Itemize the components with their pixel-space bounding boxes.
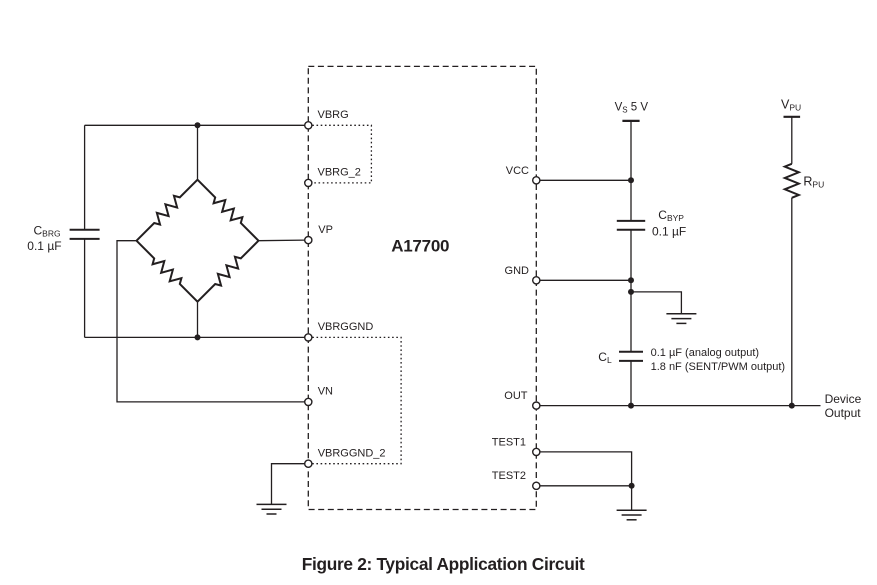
svg-text:VBRGGND: VBRGGND [318,321,374,333]
wire TEST2 [540,485,632,487]
svg-text:VPU: VPU [781,98,801,113]
pin VBRGGND_2 [305,460,312,467]
wire VBRG top rail [85,124,305,126]
wire VCC [540,179,631,181]
svg-text:RPU: RPU [803,175,824,190]
wire VS rail upper [630,121,632,221]
dotted link box VBRGGND to VBRGGND_2 [312,337,401,463]
pin GND [533,277,540,284]
capacitor C2 CBYP [617,221,645,230]
node junction TEST2 ground [629,483,635,489]
wire rail lower [630,361,632,406]
label CL value analog [651,347,759,359]
wire left rail upper [84,125,86,229]
label VP [318,224,333,236]
wire VP from bridge right vertex [259,239,305,242]
pin OUT [533,402,540,409]
svg-text:0.1 µF (analog output): 0.1 µF (analog output) [651,347,759,359]
node junction VCC rail [628,177,634,183]
resistor R1 bridge top-left [137,180,198,241]
label VBRG [318,109,349,121]
wire bridge top stem [197,125,199,179]
svg-text:OUT: OUT [504,390,528,402]
svg-text:VBRG_2: VBRG_2 [318,167,361,179]
svg-text:GND: GND [505,265,530,277]
resistor R3 bridge bottom-left [137,241,198,302]
caption Figure 2 [302,554,585,574]
label CBYP [658,208,684,223]
wire VN from bridge left vertex [117,241,305,402]
wire ground branch [631,292,681,314]
pin VN [305,398,312,405]
svg-text:VS 5 V: VS 5 V [615,102,649,115]
svg-text:VBRGGND_2: VBRGGND_2 [318,448,386,460]
label VBRG_2 [318,167,361,179]
svg-text:Figure 2: Typical Application: Figure 2: Typical Application Circuit [302,554,585,574]
svg-text:CBRG: CBRG [34,223,61,238]
label GND [505,265,530,277]
wire left rail lower [84,239,86,338]
label VN [318,386,333,398]
label CL value sent [651,361,785,373]
svg-text:0.1 µF: 0.1 µF [27,239,61,253]
pin VBRG [305,122,312,129]
resistor R2 bridge top-right [198,180,259,241]
svg-text:TEST1: TEST1 [492,436,526,448]
resistor R4 bridge bottom-right [198,241,259,302]
op-amp U1 A17700 IC dashed outline [308,66,536,509]
wire VPU to RPU [791,117,793,164]
capacitor C3 CL [619,352,643,361]
wire bridge bottom stem [197,302,199,338]
label Device Output [825,392,862,420]
wire rail mid [630,230,632,352]
node junction OUT RPU [789,403,795,409]
node junction ground branch [628,289,634,295]
label VBRGGND_2 [318,448,386,460]
svg-text:VCC: VCC [506,165,529,177]
svg-text:TEST2: TEST2 [492,470,526,482]
wire OUT [540,405,820,407]
wire VBRGGND_2 to ground [272,464,305,505]
label TEST2 [492,470,526,482]
pin VBRG_2 [305,179,312,186]
label RPU [803,175,824,190]
label VCC [506,165,529,177]
pin VP [305,237,312,244]
svg-text:0.1 µF: 0.1 µF [652,224,686,238]
pin VCC [533,177,540,184]
svg-text:Device: Device [825,392,862,406]
capacitor C1 CBRG [70,230,100,239]
svg-text:VBRG: VBRG [318,109,349,121]
power VPU supply terminal bar [784,116,801,118]
node junction OUT CL [628,403,634,409]
wire TEST1 [540,452,632,486]
label TEST1 [492,436,526,448]
label OUT [504,390,528,402]
wire RPU to OUT [791,198,793,406]
wire TEST ground stem [631,486,633,510]
label VS 5 V [615,102,649,115]
ground G1 at VBRGGND_2 [257,504,287,514]
svg-text:1.8 nF (SENT/PWM output): 1.8 nF (SENT/PWM output) [651,361,785,373]
label VPU [781,98,801,113]
svg-text:VN: VN [318,386,333,398]
node junction bottom rail [195,334,201,340]
power VS supply terminal bar [622,120,639,122]
resistor R5 RPU [785,164,799,198]
node junction GND rail [628,277,634,283]
label VBRGGND [318,321,374,333]
label CBRG value [27,239,61,253]
wire GND [540,279,631,281]
label CBRG [34,223,61,238]
pin TEST2 [533,482,540,489]
pin VBRGGND [305,334,312,341]
node junction top rail [195,122,201,128]
svg-text:Output: Output [825,406,862,420]
label CL [598,350,612,365]
ground G3 at TEST [617,510,647,520]
wire VBRGGND bottom rail [85,336,305,338]
label CBYP value [652,224,686,238]
ground G2 at GND [666,314,696,324]
svg-text:CBYP: CBYP [658,208,684,223]
dotted link box VBRG to VBRG_2 [312,125,371,183]
svg-text:CL: CL [598,350,612,365]
label A17700 [391,236,449,255]
svg-text:A17700: A17700 [391,236,449,255]
pin TEST1 [533,448,540,455]
svg-text:VP: VP [318,224,333,236]
